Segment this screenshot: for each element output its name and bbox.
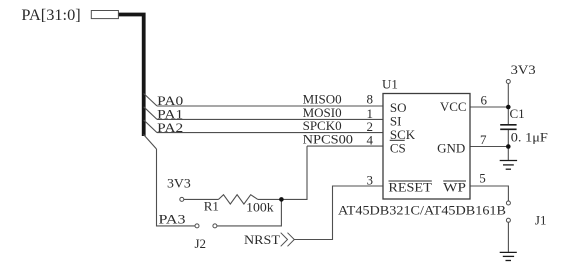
capacitor C1 plates	[500, 124, 516, 126]
wire NPCS00 to pin 4	[307, 145, 383, 147]
svg-text:RESET: RESET	[388, 180, 431, 195]
junction node GND/C1	[506, 144, 511, 149]
svg-text:3: 3	[367, 173, 374, 188]
ground under C1	[500, 161, 517, 170]
wire PA0 to pin 8	[157, 105, 383, 107]
svg-text:NRST: NRST	[244, 232, 280, 247]
wire 3V3 down to VCC node	[507, 84, 509, 125]
svg-text:6: 6	[481, 92, 488, 107]
svg-text:J1: J1	[535, 212, 547, 227]
svg-text:AT45DB321C/AT45DB161B: AT45DB321C/AT45DB161B	[338, 203, 506, 218]
wire PA2 to pin 2	[157, 132, 383, 134]
svg-text:4: 4	[367, 133, 374, 148]
svg-text:PA[31:0]: PA[31:0]	[21, 7, 80, 24]
svg-text:GND: GND	[437, 141, 465, 156]
wire bus horizontal thick	[118, 15, 143, 137]
wire VCC pin 6	[470, 106, 508, 108]
wire NPCS00 vertical to R1 node	[258, 146, 307, 199]
svg-text:R1: R1	[204, 199, 219, 214]
NRST chevron	[281, 233, 295, 247]
wire cap to GND node and ground	[507, 130, 509, 160]
IC U1 body	[383, 94, 470, 200]
svg-text:WP: WP	[443, 180, 466, 195]
bus entry diagonal PA1	[144, 107, 157, 120]
wire J1 to ground	[507, 222, 509, 252]
wire 3V3 to R1	[184, 198, 219, 200]
terminal J2 pin2	[213, 224, 217, 228]
svg-text:J2: J2	[195, 236, 207, 251]
wire NRST to RESET pin 3	[294, 186, 383, 240]
svg-text:U1: U1	[382, 76, 398, 91]
bus entry diagonal PA3	[144, 135, 157, 150]
svg-text:5: 5	[479, 170, 486, 185]
ground under J1	[500, 252, 517, 260]
terminal J2 pin1	[195, 224, 199, 228]
svg-text:NPCS00: NPCS00	[303, 132, 353, 147]
svg-text:PA3: PA3	[159, 211, 186, 226]
wire GND pin 7	[470, 146, 508, 148]
bus entry diagonal PA2	[144, 120, 157, 133]
svg-text:8: 8	[367, 92, 374, 107]
wire PA1 to pin 1	[157, 118, 383, 120]
wire PA3 vertical	[157, 149, 196, 226]
svg-text:3V3: 3V3	[511, 62, 536, 77]
svg-text:PA2: PA2	[157, 120, 183, 135]
junction node R1/J2/NPCS00	[279, 197, 284, 202]
svg-text:CS: CS	[390, 140, 406, 155]
svg-text:100k: 100k	[246, 199, 274, 214]
terminal 3V3 right	[506, 80, 510, 84]
bus label box PA[31:0]	[91, 11, 118, 19]
terminal J1 pin1	[506, 201, 510, 205]
svg-text:3V3: 3V3	[167, 176, 191, 191]
svg-text:VCC: VCC	[440, 99, 467, 114]
terminal J1 pin2	[506, 218, 510, 222]
svg-text:C1: C1	[510, 106, 525, 121]
wire WP pin 5 to J1	[470, 186, 508, 201]
terminal 3V3 left	[180, 197, 184, 201]
resistor R1	[219, 195, 258, 204]
bus entry diagonal PA0	[144, 94, 157, 107]
junction node VCC/C1	[506, 105, 511, 110]
svg-text:7: 7	[480, 132, 487, 147]
wire J2 to node	[217, 199, 281, 226]
svg-text:0. 1μF: 0. 1μF	[511, 130, 548, 145]
